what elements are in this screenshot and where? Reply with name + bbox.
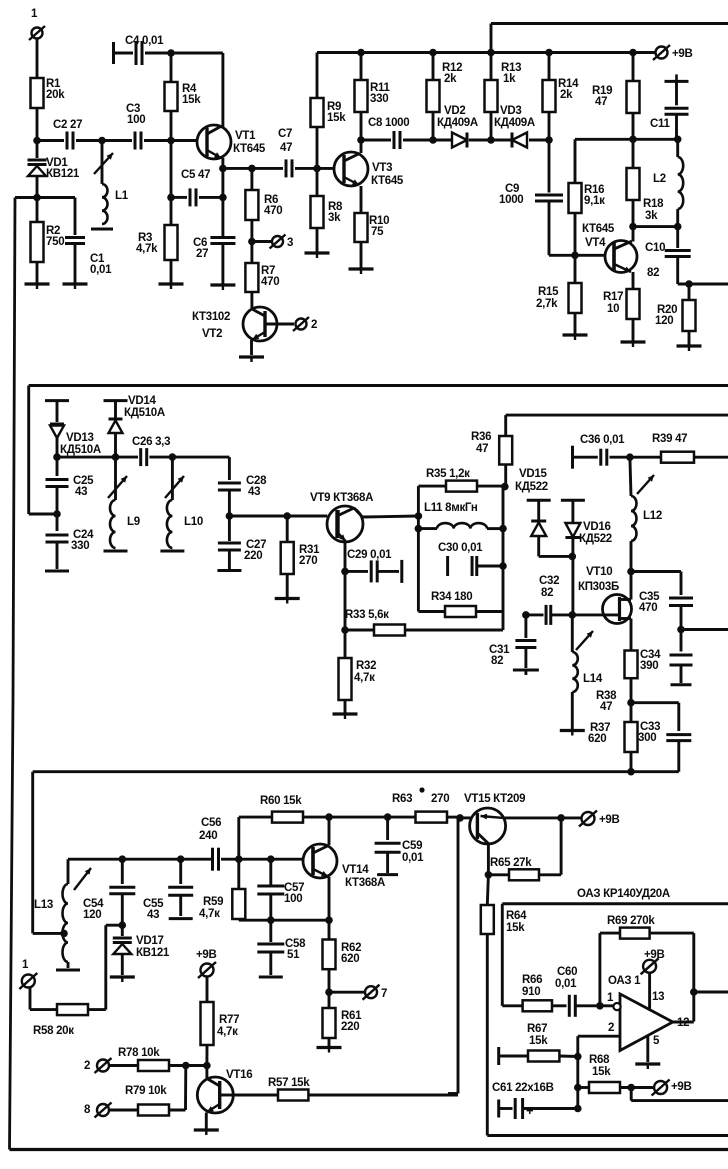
resistor R64	[481, 875, 527, 934]
inductor L12	[630, 457, 662, 571]
resistor R20	[655, 284, 696, 345]
node	[596, 1002, 604, 1010]
pin 2	[578, 1022, 620, 1057]
capacitor C35	[631, 572, 693, 630]
node	[325, 988, 333, 996]
ground	[677, 346, 702, 351]
varicap VD17 KB121	[113, 925, 170, 975]
wire	[681, 628, 728, 631]
svg-text:470: 470	[264, 205, 282, 217]
node	[53, 510, 61, 518]
svg-text:+9В: +9В	[599, 814, 620, 826]
svg-text:240: 240	[199, 830, 217, 842]
svg-text:КД522: КД522	[515, 481, 548, 493]
svg-text:КТ645: КТ645	[582, 223, 615, 235]
node	[629, 136, 637, 144]
resistor R18	[627, 139, 665, 226]
ground	[560, 731, 585, 736]
resistor R2	[31, 198, 65, 284]
svg-text:2k: 2k	[444, 73, 457, 85]
svg-text:С11: С11	[650, 118, 670, 130]
svg-text:1000: 1000	[499, 194, 523, 206]
inductor L13	[34, 859, 68, 968]
svg-text:R34 180: R34 180	[431, 591, 472, 603]
resistor R39	[630, 433, 728, 463]
svg-text:120: 120	[83, 909, 101, 921]
svg-text:51: 51	[287, 949, 300, 961]
svg-text:270: 270	[299, 555, 317, 567]
resistor R33	[345, 609, 503, 636]
svg-text:R36: R36	[471, 431, 491, 443]
inductor L11	[415, 502, 507, 532]
page border bottom	[10, 1148, 728, 1151]
node	[53, 453, 61, 461]
svg-text:L13: L13	[34, 899, 53, 911]
terminal +9V	[196, 949, 217, 1002]
resistor R36	[471, 415, 728, 487]
svg-text:470: 470	[261, 276, 279, 288]
resistor R17	[603, 272, 640, 341]
wire	[325, 877, 333, 924]
svg-text:ОАЗ 1: ОАЗ 1	[608, 975, 641, 987]
svg-text:15k: 15k	[182, 94, 201, 106]
inductor L2	[653, 139, 683, 226]
resistor R9	[311, 53, 347, 169]
diode VD13 KD510A	[45, 401, 101, 458]
svg-text:L2: L2	[653, 173, 666, 185]
shield bus	[29, 386, 728, 515]
svg-text:КД522: КД522	[579, 533, 612, 545]
capacitor C34	[640, 630, 693, 685]
svg-text:43: 43	[147, 909, 159, 921]
svg-text:КВ121: КВ121	[46, 168, 80, 180]
label DA3	[577, 888, 670, 900]
capacitor C3	[102, 103, 171, 150]
wire	[633, 225, 678, 228]
terminal 1 (antenna input)	[29, 8, 45, 78]
wire	[341, 571, 349, 633]
svg-text:С36 0,01: С36 0,01	[580, 434, 625, 446]
svg-text:R66: R66	[522, 974, 542, 986]
svg-text:5: 5	[653, 1035, 660, 1047]
svg-text:VT16: VT16	[226, 1069, 252, 1081]
svg-text:43: 43	[248, 486, 260, 498]
svg-text:47: 47	[476, 443, 488, 455]
svg-text:4,7k: 4,7k	[136, 243, 158, 255]
svg-text:VD13: VD13	[66, 432, 94, 444]
svg-text:КД510А: КД510А	[60, 444, 101, 456]
node	[415, 512, 423, 520]
svg-text:15k: 15k	[592, 1066, 611, 1078]
svg-text:С56: С56	[201, 817, 221, 829]
capacitor C33	[631, 703, 691, 772]
svg-text:0,01: 0,01	[90, 264, 112, 276]
resistor R8	[311, 168, 344, 252]
ground	[169, 917, 193, 920]
svg-text:13: 13	[652, 991, 664, 1003]
resistor R62	[323, 920, 362, 992]
node	[112, 453, 120, 461]
svg-text:R68: R68	[589, 1054, 610, 1066]
ground	[210, 285, 235, 290]
svg-text:С30 0,01: С30 0,01	[438, 542, 483, 554]
ground	[25, 284, 50, 289]
svg-text:R77: R77	[219, 1014, 239, 1026]
svg-text:VD14: VD14	[128, 395, 156, 407]
capacitor C61	[492, 1082, 578, 1119]
wire	[575, 138, 633, 141]
svg-text:R33 5,6к: R33 5,6к	[345, 609, 389, 621]
wire	[33, 108, 41, 144]
diode VD14 KD510A	[104, 395, 165, 457]
capacitor C1	[37, 198, 112, 284]
ground	[349, 269, 374, 274]
svg-text:R59: R59	[203, 896, 223, 908]
svg-text:C2 27: C2 27	[53, 119, 82, 131]
svg-text:ОАЗ КР140УД20А: ОАЗ КР140УД20А	[577, 888, 670, 900]
node	[119, 921, 127, 929]
svg-text:+: +	[526, 1103, 534, 1118]
capacitor C6	[193, 197, 235, 284]
svg-text:0,01: 0,01	[555, 978, 577, 990]
pin 1	[600, 992, 621, 1010]
resistor R61	[323, 992, 363, 1046]
ground	[259, 976, 283, 979]
svg-text:R60 15k: R60 15k	[260, 795, 302, 807]
ground	[159, 284, 184, 289]
wire	[630, 619, 633, 651]
node	[33, 930, 68, 938]
svg-text:8: 8	[84, 1104, 91, 1116]
node	[626, 453, 634, 461]
svg-text:7: 7	[381, 988, 387, 1000]
capacitor C60	[555, 966, 600, 1017]
capacitor C9	[499, 140, 575, 255]
svg-text:+9В: +9В	[672, 48, 693, 60]
svg-text:VT9 КТ368А: VT9 КТ368А	[310, 492, 373, 504]
pin 5	[648, 1035, 660, 1062]
svg-text:VT10: VT10	[586, 566, 612, 578]
capacitor C27	[218, 516, 266, 569]
ground	[305, 253, 330, 258]
diode VD3 KD409A	[491, 105, 549, 148]
svg-text:VT15 КТ209: VT15 КТ209	[464, 793, 525, 805]
svg-text:+9В: +9В	[196, 949, 217, 961]
svg-text:1: 1	[31, 8, 38, 20]
wire	[633, 136, 682, 144]
svg-text:С60: С60	[557, 966, 577, 978]
wire	[219, 168, 227, 201]
svg-text:10: 10	[607, 303, 619, 315]
svg-text:С61 22х16В: С61 22х16В	[492, 1082, 554, 1094]
svg-text:2k: 2k	[560, 89, 573, 101]
svg-text:120: 120	[655, 315, 673, 327]
svg-text:R15: R15	[538, 286, 559, 298]
resistor R66	[502, 974, 566, 1011]
svg-text:L10: L10	[184, 516, 203, 528]
resistor R4	[165, 53, 202, 141]
svg-text:VT1: VT1	[235, 130, 256, 142]
svg-text:R32: R32	[356, 660, 376, 672]
capacitor C4	[114, 35, 172, 65]
trimmer arrow	[108, 476, 127, 498]
diode VD16 KD522	[561, 500, 612, 615]
transistor VT15 KT209	[460, 793, 561, 844]
wire	[106, 925, 123, 1009]
wire	[485, 844, 493, 879]
node	[33, 194, 41, 202]
wire	[223, 165, 256, 173]
svg-text:VD3: VD3	[500, 105, 521, 117]
svg-text:20k: 20k	[46, 89, 65, 101]
trimmer arrow	[74, 868, 91, 890]
transistor VT14 KT368A	[303, 844, 385, 889]
resistor R57	[234, 1077, 459, 1101]
resistor R31	[281, 516, 320, 597]
varicap VD1 KB121	[28, 141, 80, 198]
svg-text:15k: 15k	[327, 112, 346, 124]
base bus	[68, 855, 212, 863]
svg-text:L1: L1	[115, 190, 129, 202]
terminal 1	[19, 959, 57, 1010]
node	[569, 611, 577, 619]
wire	[502, 904, 728, 1006]
svg-text:220: 220	[244, 550, 262, 562]
resistor R10	[355, 186, 390, 268]
wire	[341, 541, 349, 575]
svg-text:VD16: VD16	[583, 521, 611, 533]
wire	[10, 198, 38, 1150]
ground	[635, 1064, 660, 1069]
svg-text:L11 8мкГн: L11 8мкГн	[424, 502, 478, 514]
svg-text:300: 300	[638, 732, 656, 744]
capacitor C29	[345, 549, 402, 583]
resistor R19	[592, 53, 640, 140]
node	[487, 136, 495, 144]
resistor R12	[427, 53, 463, 141]
resistor R3	[136, 197, 178, 283]
ground	[56, 969, 80, 972]
svg-text:0,01: 0,01	[402, 852, 424, 864]
svg-text:С29 0,01: С29 0,01	[347, 549, 392, 561]
capacitor C25	[46, 457, 95, 514]
wire	[501, 483, 509, 630]
ground	[333, 714, 358, 719]
node	[574, 1053, 582, 1061]
inductor L1	[91, 141, 129, 230]
ground	[45, 570, 69, 573]
svg-text:VD15: VD15	[519, 468, 547, 480]
svg-text:VT3: VT3	[372, 162, 392, 174]
terminal +9V	[652, 1080, 692, 1096]
capacitor C5	[167, 141, 223, 207]
capacitor C7	[252, 128, 317, 177]
svg-text:C4 0,01: C4 0,01	[125, 35, 164, 47]
node	[248, 238, 256, 246]
svg-text:1k: 1k	[503, 73, 516, 85]
node	[571, 252, 579, 260]
capacitor C24	[46, 514, 95, 569]
svg-text:47: 47	[595, 96, 607, 108]
ground	[621, 342, 646, 347]
svg-text:82: 82	[541, 587, 553, 599]
inductor L9	[104, 457, 140, 551]
ground	[110, 977, 135, 982]
node	[98, 137, 106, 145]
node	[677, 626, 685, 634]
top supply rail	[361, 49, 655, 57]
svg-text:82: 82	[647, 267, 659, 279]
capacitor C32	[526, 575, 572, 625]
svg-text:3k: 3k	[328, 212, 341, 224]
svg-text:КП303Б: КП303Б	[578, 581, 619, 593]
svg-text:4,7к: 4,7к	[217, 1026, 238, 1038]
resistor R38	[596, 651, 638, 714]
svg-text:КТ645: КТ645	[233, 143, 266, 155]
svg-text:VD2: VD2	[444, 105, 465, 117]
svg-text:620: 620	[588, 733, 606, 745]
inductor L14	[572, 615, 603, 729]
resistor R16	[569, 139, 606, 255]
svg-text:47: 47	[280, 142, 292, 154]
ground	[63, 284, 88, 289]
svg-text:15k: 15k	[506, 922, 525, 934]
svg-text:2: 2	[608, 1022, 614, 1034]
node	[235, 855, 243, 863]
svg-text:КТ645: КТ645	[371, 175, 404, 187]
resistor R15	[536, 255, 582, 334]
resistor R11	[355, 49, 391, 140]
svg-text:C5 47: C5 47	[181, 169, 210, 181]
capacitor C11	[650, 74, 689, 139]
transistor VT16	[197, 1066, 252, 1130]
capacitor C8	[361, 117, 433, 149]
svg-text:КТ368А: КТ368А	[345, 877, 385, 889]
ground	[563, 335, 588, 340]
resistor R60	[239, 795, 329, 859]
capacitor C10	[645, 227, 691, 284]
svg-text:2,7k: 2,7k	[536, 298, 558, 310]
svg-text:C7: C7	[278, 128, 292, 140]
node	[456, 814, 464, 822]
ground	[239, 357, 264, 362]
resistor R68	[578, 1054, 653, 1093]
capacitor C58	[257, 920, 306, 975]
svg-text:R18: R18	[643, 198, 664, 210]
svg-text:R69 270k: R69 270k	[607, 915, 655, 927]
wire	[448, 818, 458, 1094]
svg-text:VD17: VD17	[136, 935, 164, 947]
svg-text:L12: L12	[643, 510, 662, 522]
capacitor C57	[257, 855, 304, 920]
wire	[325, 813, 333, 845]
trimmer arrow	[637, 475, 654, 494]
wire	[360, 140, 363, 153]
transistor VT2 KT3102	[192, 307, 294, 355]
capacitor C36	[573, 434, 630, 469]
node	[629, 223, 637, 231]
resistor R1	[31, 78, 66, 108]
terminal 2	[293, 317, 317, 331]
svg-text:15k: 15k	[529, 1035, 548, 1047]
svg-text:R79 10k: R79 10k	[125, 1085, 167, 1097]
svg-text:VT2: VT2	[202, 328, 222, 340]
resistor R7	[245, 242, 279, 310]
svg-text:4,7к: 4,7к	[354, 672, 375, 684]
wire	[491, 24, 728, 53]
wire	[354, 508, 418, 517]
capacitor C30	[438, 542, 507, 576]
resistor R14	[543, 53, 580, 141]
svg-text:VT4: VT4	[585, 237, 606, 249]
svg-text:47: 47	[600, 701, 612, 713]
tuning rail	[33, 772, 679, 934]
resistor R67	[499, 1023, 578, 1065]
svg-text:270: 270	[431, 793, 449, 805]
svg-text:43: 43	[75, 486, 87, 498]
node	[313, 165, 321, 173]
terminal 8	[84, 1103, 138, 1118]
svg-text:75: 75	[371, 226, 384, 238]
node	[627, 699, 635, 707]
svg-text:+9В: +9В	[644, 949, 665, 961]
svg-text:КД510А: КД510А	[124, 407, 165, 419]
svg-text:100: 100	[284, 893, 302, 905]
terminal 2	[84, 1058, 138, 1073]
wire	[678, 280, 728, 288]
capacitor C31	[489, 611, 536, 668]
capacitor C55	[143, 859, 193, 921]
svg-text:L9: L9	[127, 516, 140, 528]
svg-text:КТ3102: КТ3102	[192, 311, 230, 323]
svg-text:С26 3,3: С26 3,3	[132, 436, 170, 448]
node	[627, 768, 635, 776]
wire	[487, 934, 728, 1136]
pin 13	[641, 949, 665, 1009]
op-amp DA3 KR140UD20A	[608, 975, 673, 1051]
pin 12	[673, 1017, 694, 1029]
node	[167, 137, 175, 145]
svg-text:R78 10k: R78 10k	[118, 1047, 160, 1059]
svg-text:КД409А: КД409А	[494, 117, 535, 129]
svg-text:27: 27	[196, 248, 208, 260]
node	[226, 512, 234, 520]
capacitor C56	[199, 817, 304, 871]
inductor L10	[160, 457, 203, 551]
capacitor C2	[37, 119, 102, 150]
resistor R59	[199, 859, 245, 920]
ground	[194, 1130, 219, 1135]
svg-text:2: 2	[84, 1060, 90, 1072]
resistor R69	[600, 915, 694, 1006]
wire	[690, 933, 728, 1021]
ground	[317, 1048, 342, 1053]
terminal 3	[252, 235, 293, 250]
resistor R78	[118, 1047, 211, 1071]
capacitor C28	[218, 457, 267, 516]
svg-text:КВ121: КВ121	[136, 947, 170, 959]
svg-text:С59: С59	[402, 840, 422, 852]
svg-text:470: 470	[639, 602, 657, 614]
trimmer arrow	[94, 153, 113, 174]
svg-text:910: 910	[522, 986, 540, 998]
terminal +9V	[557, 811, 619, 827]
svg-text:330: 330	[71, 540, 89, 552]
svg-text:220: 220	[341, 1021, 359, 1033]
node	[429, 136, 437, 144]
svg-text:R57 15k: R57 15k	[268, 1077, 310, 1089]
resistor R13	[485, 53, 522, 141]
